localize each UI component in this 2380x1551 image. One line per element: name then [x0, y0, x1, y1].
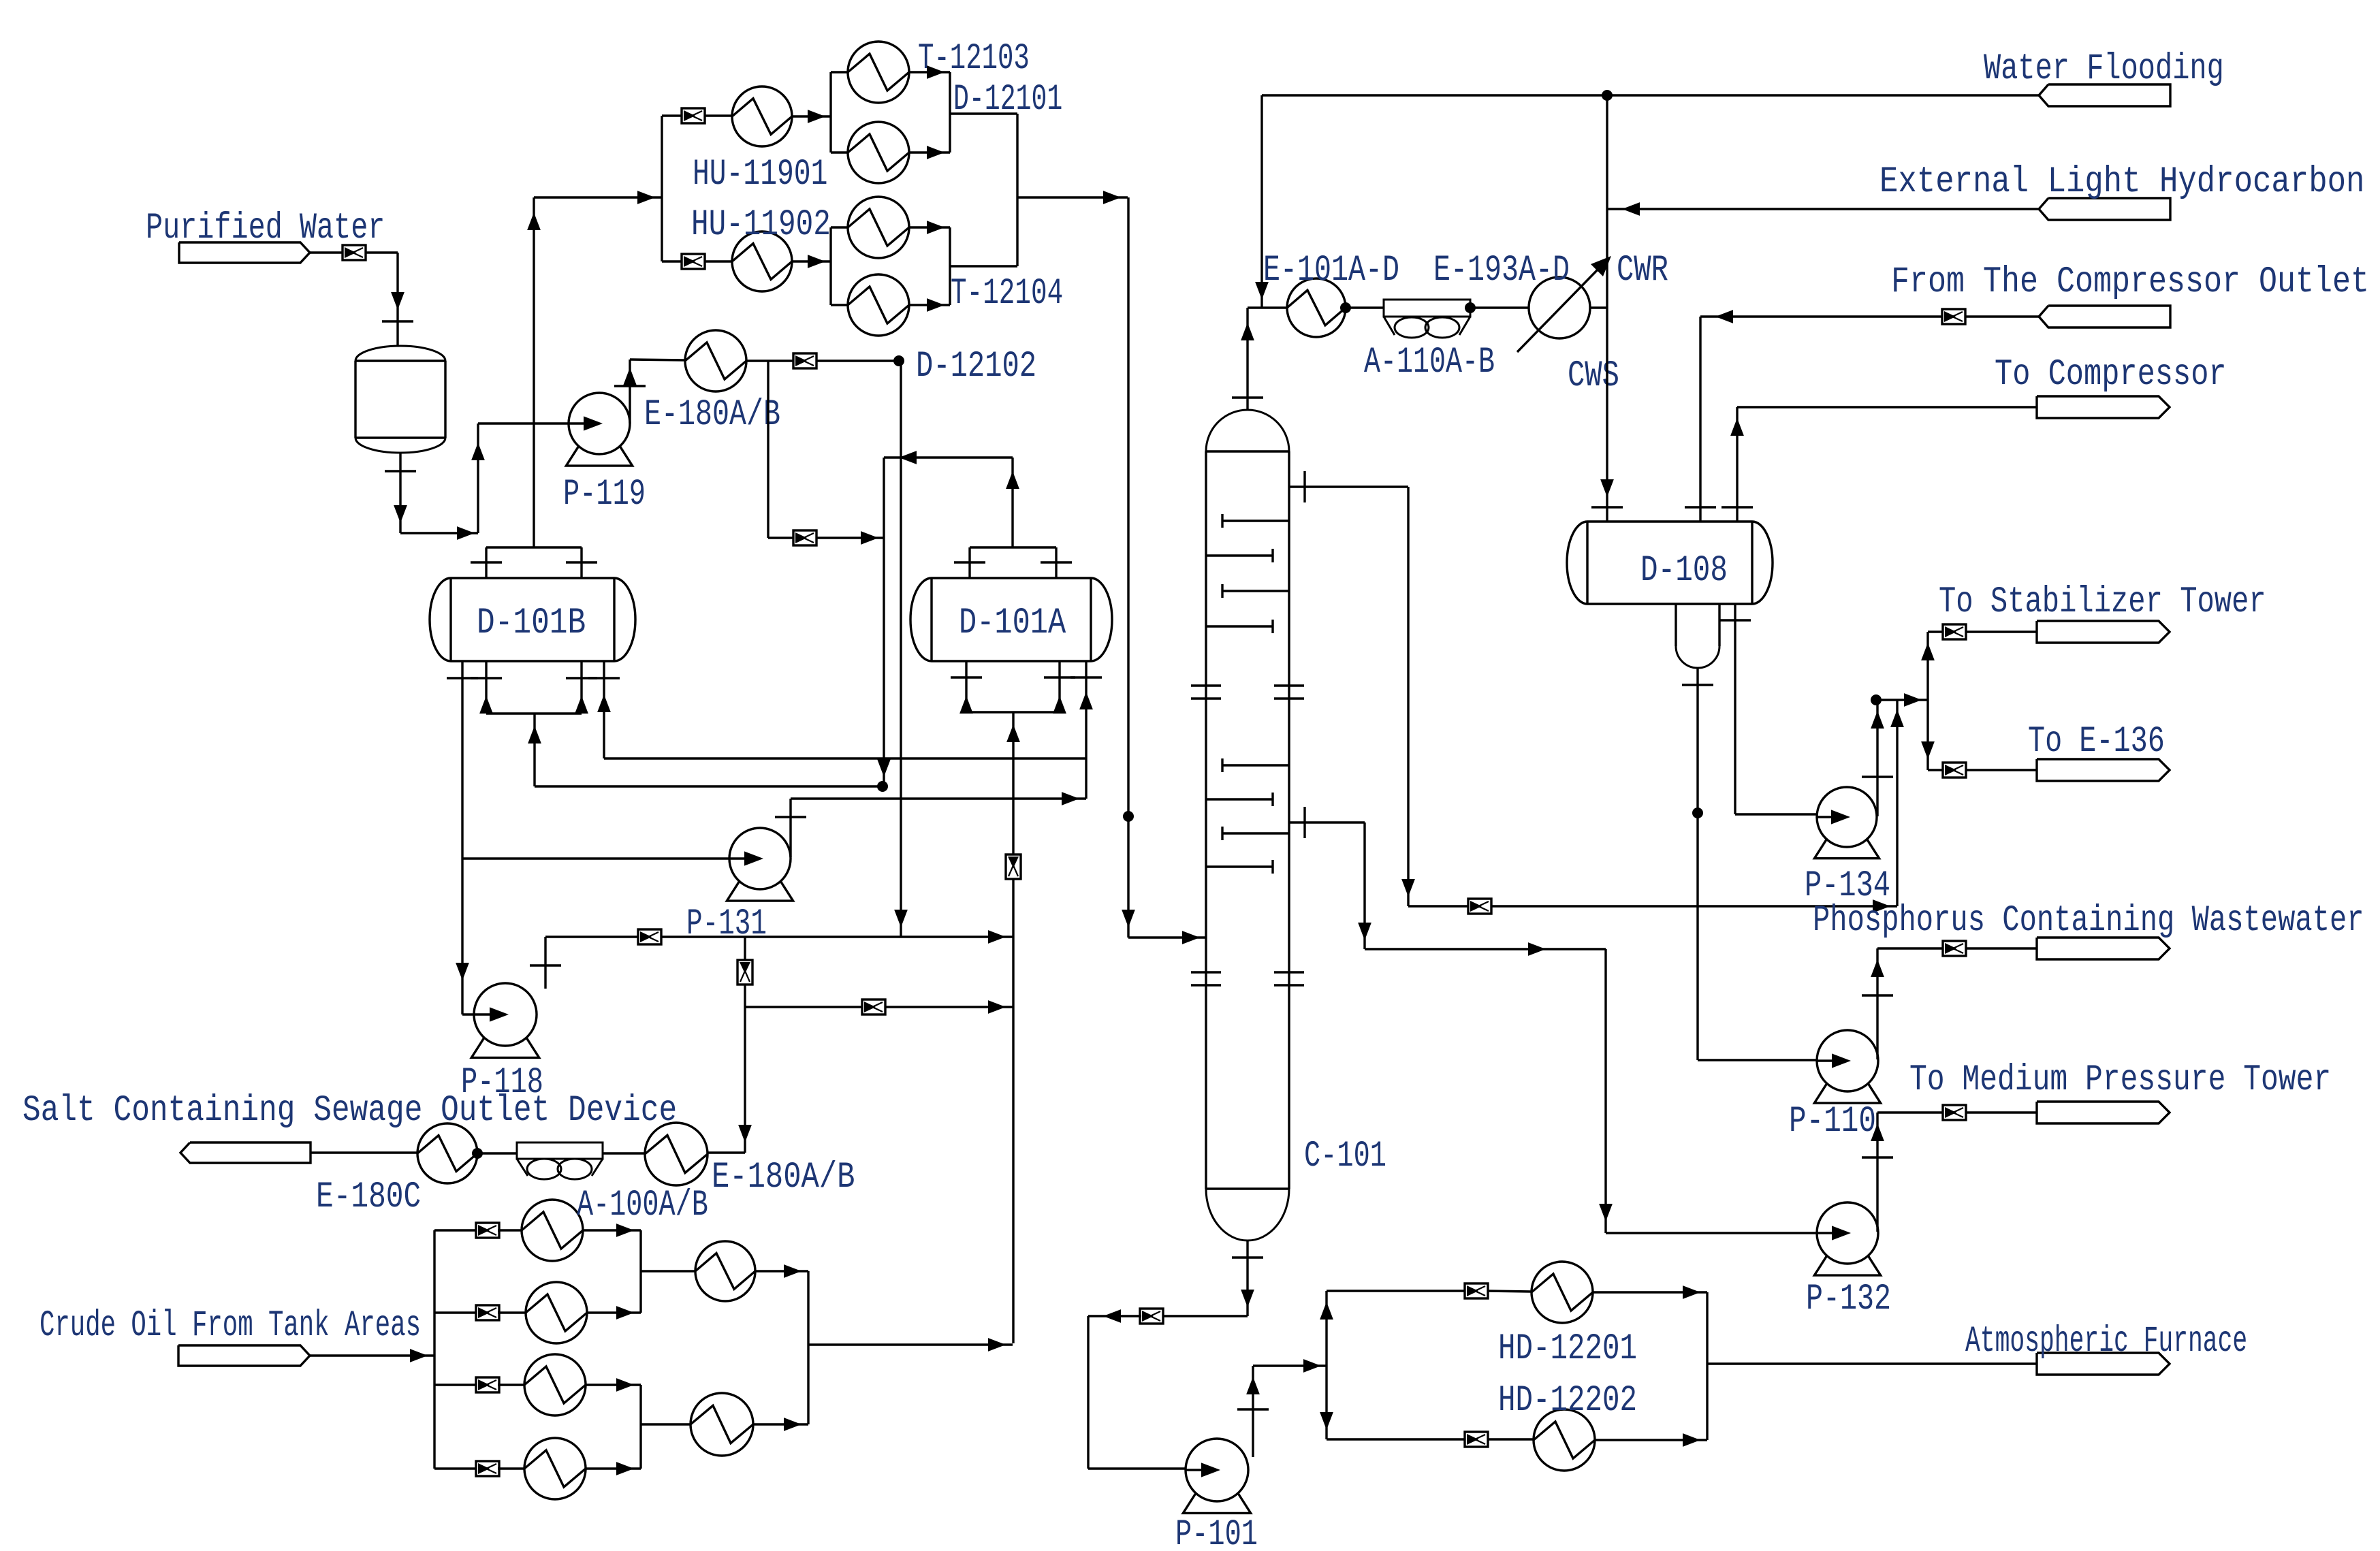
heat exchanger HD-12201: [1498, 1262, 1637, 1370]
wire crude inlet to manifold: [310, 1230, 434, 1469]
svg-text:Phosphorus Containing Wastewat: Phosphorus Containing Wastewater: [1813, 900, 2364, 942]
wire P-118 discharge header: [530, 937, 639, 989]
wire D-101B vapour riser to HU exchangers split: [527, 116, 682, 547]
wire C-101 bottoms to P-101: [1162, 1241, 1263, 1316]
valve on purified water line: [343, 245, 366, 260]
wire banner to E-180C: [311, 1151, 417, 1153]
valve on bottoms line: [1140, 1309, 1163, 1324]
column C-101 (atmospheric tower) with trays: [1191, 410, 1386, 1241]
wire E-5 outlet: [755, 1264, 808, 1345]
wire bottoms line to P-101 suction: [1088, 1309, 1213, 1475]
svg-text:External Light Hydrocarbon: External Light Hydrocarbon: [1879, 161, 2364, 203]
svg-text:From The Compressor Outlet: From The Compressor Outlet: [1891, 261, 2369, 303]
wire valve to exchanger 4: [498, 1467, 524, 1469]
wire P-119 discharge to E-180A/B: [614, 359, 685, 423]
heat exchanger E-180C: [316, 1123, 477, 1218]
wire external light hydrocarbon into D-108 feed: [1607, 202, 2039, 216]
valve (vertical) on sewage branch: [737, 960, 752, 985]
wire tee down through vertical valve to sewage coolers: [708, 937, 752, 1153]
wire D-101B boot nozzle to water header y1114: [588, 661, 1086, 758]
wire P-101 discharge splits to HD heaters: [1237, 1291, 1465, 1457]
svg-text:E-180C: E-180C: [316, 1177, 421, 1218]
drum D-108 (overhead accumulator) with boot: [1567, 522, 1773, 668]
svg-text:A-110A-B: A-110A-B: [1364, 342, 1495, 383]
svg-text:D-101B: D-101B: [477, 603, 586, 644]
wire crude riser through D-101A bottom manifold: [1006, 712, 1020, 1343]
wire valve to HU-11901: [705, 114, 732, 116]
svg-text:Water Flooding: Water Flooding: [1984, 48, 2224, 90]
svg-text:P-131: P-131: [686, 904, 767, 945]
heat exchanger crude preheat E-1: [522, 1200, 583, 1261]
wire branches 3+4 merge to exchanger E-6: [641, 1385, 691, 1469]
off-page connector "To Medium Pressure Tower": [1909, 1059, 2331, 1123]
heat exchanger HU-11901: [693, 86, 827, 195]
wire to HD-12202: [1487, 1438, 1534, 1440]
heat exchanger D-12101 (twin of T-12103): [848, 79, 1062, 183]
off-page connector "To Compressor": [1995, 354, 2227, 418]
wire branch down from tee through valve to desalter water header: [768, 361, 794, 538]
wire P-131 discharge to D-101A nozzle riser: [775, 792, 1086, 857]
off-page connector "Water Flooding": [1984, 48, 2224, 106]
heat exchanger E-180A/B: [644, 330, 780, 436]
heat exchanger T-12103: [848, 38, 1030, 103]
svg-text:E-193A-D: E-193A-D: [1433, 250, 1570, 291]
svg-text:Crude Oil From Tank Areas: Crude Oil From Tank Areas: [39, 1305, 421, 1347]
wire second branch to crude riser: [745, 1006, 863, 1008]
D-101B top manifold: [471, 547, 597, 578]
wire P-134 discharge up to product split: [1862, 693, 1928, 816]
wire exchanger 3 outlet: [586, 1378, 641, 1392]
wire E-193A-D outlet to D-108 feed line: [1590, 306, 1607, 308]
svg-text:P-101: P-101: [1175, 1514, 1258, 1548]
wire V-1 bottom outlet to pump P-119 suction: [385, 417, 595, 540]
wire header to crude riser with tee at x1094: [661, 930, 1013, 944]
pump P-131: [686, 828, 793, 945]
valve on HD-12202 branch: [1465, 1432, 1488, 1447]
wire crude branch 2: [434, 1311, 477, 1313]
D-101B bottom manifold with risers: [471, 661, 888, 792]
wire E-101A-D to air cooler A-110A-B: [1340, 302, 1384, 313]
vessel V-1 (purified water surge drum): [355, 346, 445, 453]
wire combined hot stream down to C-101 feed: [1017, 114, 1206, 944]
svg-text:P-110: P-110: [1789, 1101, 1876, 1142]
valve on crude branch 2: [476, 1305, 499, 1320]
valve (vertical) on crude riser: [1006, 854, 1021, 879]
off-page connector "Phosphorus Containing Wastewater": [1813, 900, 2364, 959]
wire to HD-12201: [1487, 1291, 1532, 1292]
heat exchanger crude preheat E-2: [526, 1282, 587, 1343]
air cooler A-110A-B: [1364, 300, 1495, 383]
svg-text:D-108: D-108: [1640, 550, 1728, 592]
heat exchanger crude preheat E-5: [695, 1241, 755, 1301]
valve on second branch: [862, 1000, 885, 1014]
wire D-108 boot water down to P-110 suction: [1682, 668, 1843, 1067]
pump P-119: [563, 393, 646, 515]
trim cooler E-193A-D with CWS/CWR arrow: [1433, 250, 1668, 397]
drum D-101B (desalter): [430, 578, 635, 661]
svg-text:E-101A-D: E-101A-D: [1263, 250, 1399, 291]
drum D-101A (desalter): [910, 578, 1112, 661]
label salt containing sewage: [22, 1090, 677, 1132]
wire HD heater outlets merge to furnace line: [1593, 1285, 2037, 1447]
valve on E-180A/B outlet line: [793, 353, 816, 368]
wire E-180C to A-100A/B: [472, 1148, 517, 1159]
heat exchanger crude preheat E-4: [524, 1438, 586, 1499]
valve on stabilizer line: [1943, 624, 1966, 639]
wire T-12103 pair outlets rejoin: [909, 65, 1017, 159]
off-page connector "Salt Containing Sewage Outlet Device": [180, 1142, 311, 1163]
off-page connector "Atmospheric Furnace": [1965, 1321, 2247, 1375]
wire C-101 upper draw to reflux riser: [1289, 471, 1469, 906]
svg-text:CWS: CWS: [1568, 355, 1619, 397]
wire T-12104 pair outlets rejoin: [909, 221, 1017, 312]
svg-text:HU-11901: HU-11901: [693, 154, 827, 195]
svg-text:HD-12202: HD-12202: [1498, 1380, 1637, 1422]
svg-text:D-12102: D-12102: [916, 346, 1036, 387]
wire exchanger 1 outlet: [583, 1224, 641, 1237]
wire split header to stabilizer / E-136: [1921, 632, 2037, 770]
pump P-132: [1806, 1202, 1891, 1320]
wire valve to exchanger 3: [498, 1384, 524, 1386]
heat exchanger crude preheat E-3: [524, 1354, 586, 1416]
pump P-110: [1789, 1030, 1881, 1142]
wire crude branch 3: [434, 1384, 477, 1386]
off-page connector "From The Compressor Outlet": [1891, 261, 2369, 327]
svg-text:E-180A/B: E-180A/B: [712, 1157, 855, 1198]
valve on HD-12201 branch: [1465, 1283, 1488, 1298]
svg-text:HU-11902: HU-11902: [691, 204, 831, 246]
svg-text:Atmospheric Furnace: Atmospheric Furnace: [1965, 1321, 2247, 1362]
wire D-101B left nozzle down to pumps P-131 / P-118: [447, 661, 756, 1021]
wire P-132 discharge to medium pressure tower line: [1862, 1113, 2037, 1232]
air cooler A-100A/B: [517, 1142, 708, 1226]
wire purified water down into surge drum V-1: [366, 253, 413, 347]
heat exchanger HU-11902: [691, 204, 831, 291]
D-101A right bottom nozzle riser: [1070, 661, 1102, 799]
svg-text:HD-12201: HD-12201: [1498, 1328, 1637, 1370]
off-page connector "To E-136": [2028, 721, 2170, 781]
svg-text:A-100A/B: A-100A/B: [577, 1185, 708, 1226]
svg-text:C-101: C-101: [1304, 1136, 1386, 1177]
svg-text:To Compressor: To Compressor: [1995, 354, 2227, 396]
wire C-101 overhead to E-101A-D: [1232, 308, 1287, 410]
valve on wastewater line: [1943, 941, 1966, 956]
valve on crude branch 1: [476, 1223, 499, 1238]
off-page connector "Crude Oil From Tank Areas": [39, 1305, 421, 1366]
heat exchanger T-12104 lower: [848, 273, 1063, 387]
wire crude branch 1: [434, 1229, 477, 1231]
wire D-108 feed drop leg: [1591, 95, 1623, 522]
valve on crude branch 4: [476, 1461, 499, 1476]
wire HU-11902 outlet split to T-12104 pair: [792, 227, 848, 305]
svg-text:To Stabilizer Tower: To Stabilizer Tower: [1939, 581, 2266, 623]
svg-text:E-180A/B: E-180A/B: [644, 394, 780, 436]
wire exchanger 2 outlet: [587, 1306, 641, 1320]
valve on P-118 discharge: [638, 929, 661, 944]
svg-text:T-12104: T-12104: [951, 273, 1063, 315]
wire A-100A/B to E-180A/B (water side): [603, 1152, 645, 1154]
valve on medium pressure tower line: [1943, 1105, 1966, 1120]
heat exchanger E-101A-D: [1263, 250, 1399, 337]
wire A-110A-B to E-193A-D: [1465, 302, 1529, 313]
heat exchanger HD-12202: [1498, 1380, 1637, 1471]
D-101A bottom manifold: [951, 661, 1075, 714]
wire C-101 mid draw to P-132: [1289, 807, 1844, 1233]
wire branches 1+2 merge to exchanger E-5: [641, 1230, 695, 1313]
wire to corner junction then down to P-118 discharge header: [816, 355, 908, 937]
heat exchanger T-12104 upper: [848, 197, 909, 258]
valve on crude branch 3: [476, 1377, 499, 1392]
svg-text:CWR: CWR: [1617, 250, 1668, 291]
D-101A top manifold with riser to recycle line: [877, 451, 1072, 786]
wire valve to exchanger 2: [498, 1311, 526, 1313]
valve on E-136 line: [1943, 763, 1966, 778]
off-page connector "External Light Hydrocarbon": [1879, 161, 2364, 220]
wire E-180A/B outlet (tee at x1128): [746, 359, 793, 362]
wire P-110 discharge to wastewater banner: [1862, 948, 2037, 1059]
pump P-134: [1805, 787, 1890, 907]
wire water flooding line to overhead system: [1255, 90, 2039, 308]
wire combined crude to desalter riser: [808, 1338, 1013, 1352]
wire upper draw continues to riser: [1491, 899, 1897, 913]
pump P-118: [461, 983, 543, 1104]
wire E-6 outlet: [753, 1345, 808, 1431]
wire D-108 bottom draw to P-134 suction: [1719, 604, 1843, 821]
wire D-108 vapour to compressor: [1721, 407, 2037, 522]
wire second branch continues: [885, 1000, 1013, 1014]
wire branch into descending header x1298: [816, 531, 884, 545]
svg-text:P-132: P-132: [1806, 1279, 1891, 1320]
wire HU-11901 outlet split to T-12103 pair: [792, 72, 848, 153]
wire reflux riser from C-101 draw line: [1890, 700, 1904, 906]
wire crude branch 4: [434, 1467, 477, 1469]
svg-text:Purified Water: Purified Water: [146, 208, 385, 249]
svg-text:To E-136: To E-136: [2028, 721, 2165, 763]
valve on upper draw line: [1468, 899, 1491, 914]
wire valve to exchanger 1: [498, 1229, 522, 1231]
valve on compressor outlet line: [1942, 309, 1965, 324]
valve on HU-11902 inlet: [682, 254, 705, 269]
pump P-101: [1175, 1439, 1258, 1551]
svg-text:Salt Containing Sewage Outlet: Salt Containing Sewage Outlet Device: [22, 1090, 677, 1132]
wire valve to HU-11902: [705, 260, 732, 262]
wire exchanger 4 outlet: [586, 1462, 641, 1475]
heat exchanger E-180A/B (sewage service): [645, 1123, 855, 1198]
valve on branch line: [793, 530, 816, 545]
heat exchanger crude preheat E-6: [691, 1393, 753, 1456]
off-page connector "To Stabilizer Tower": [1939, 581, 2266, 643]
svg-text:D-101A: D-101A: [959, 603, 1066, 644]
valve on HU-11901 inlet: [682, 108, 705, 123]
off-page connector "Purified Water" (inlet banner): [146, 208, 385, 263]
svg-text:To Medium Pressure Tower: To Medium Pressure Tower: [1909, 1059, 2331, 1101]
wire compressor outlet into D-108: [1685, 310, 2039, 522]
wire purified water to valve: [310, 251, 343, 253]
svg-text:P-119: P-119: [563, 474, 646, 515]
